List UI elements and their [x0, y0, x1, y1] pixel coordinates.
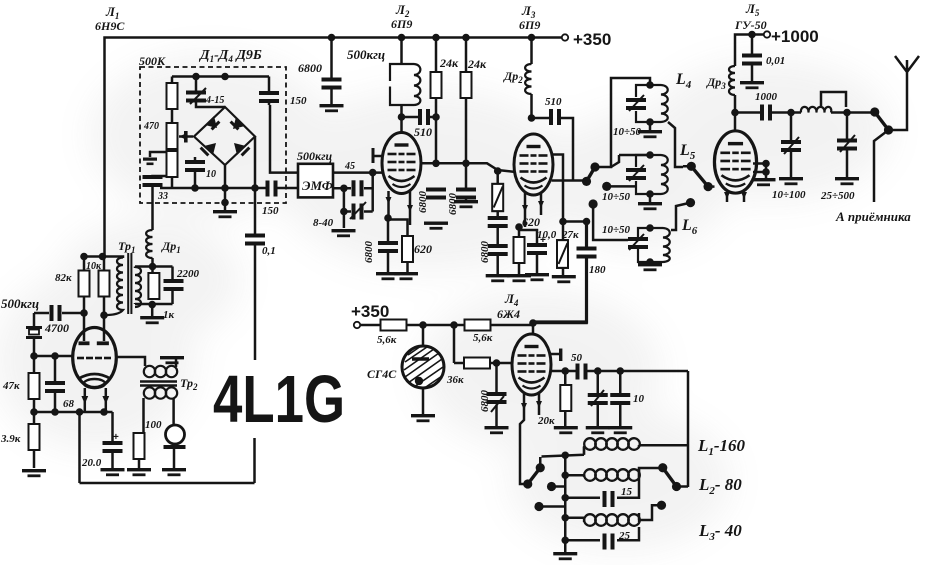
svg-text:6800: 6800: [298, 61, 322, 75]
svg-text:180: 180: [589, 264, 606, 276]
svg-text:10÷50: 10÷50: [613, 126, 642, 138]
svg-text:+350: +350: [351, 302, 389, 321]
svg-text:L2- 80: L2- 80: [698, 475, 742, 497]
svg-text:82к: 82к: [55, 272, 72, 284]
svg-text:0,1: 0,1: [262, 245, 276, 257]
svg-text:5,6к: 5,6к: [377, 334, 397, 346]
svg-text:10к: 10к: [86, 261, 102, 272]
svg-text:24к: 24к: [439, 56, 459, 70]
svg-text:1к: 1к: [163, 309, 175, 321]
svg-text:6800: 6800: [417, 191, 429, 214]
svg-text:10÷100: 10÷100: [772, 189, 806, 201]
svg-text:20к: 20к: [537, 415, 555, 427]
svg-text:3.9к: 3.9к: [0, 433, 21, 445]
svg-text:6П9: 6П9: [519, 18, 540, 32]
svg-text:4L1G: 4L1G: [213, 362, 345, 437]
svg-text:10: 10: [633, 393, 645, 405]
svg-text:+1000: +1000: [771, 27, 819, 46]
svg-text:33: 33: [157, 191, 168, 202]
svg-text:6800: 6800: [363, 241, 375, 264]
svg-text:6П9: 6П9: [391, 17, 412, 31]
svg-text:6Н9С: 6Н9С: [95, 19, 125, 33]
svg-text:10,0: 10,0: [537, 229, 557, 241]
svg-text:36к: 36к: [446, 374, 464, 386]
svg-text:ЭМФ: ЭМФ: [302, 178, 333, 193]
svg-text:6800: 6800: [479, 241, 491, 264]
svg-text:10÷50: 10÷50: [602, 224, 631, 236]
svg-text:510: 510: [414, 125, 432, 139]
svg-text:6800: 6800: [479, 390, 491, 413]
svg-text:А приёмника: А приёмника: [835, 209, 911, 224]
svg-text:5,6к: 5,6к: [473, 332, 493, 344]
svg-text:СГ4С: СГ4С: [367, 367, 397, 381]
svg-text:6800: 6800: [447, 193, 459, 216]
svg-text:24к: 24к: [467, 57, 487, 71]
svg-text:L3- 40: L3- 40: [698, 521, 742, 543]
svg-text:25: 25: [618, 530, 631, 542]
svg-text:4-15: 4-15: [205, 95, 224, 106]
svg-text:15: 15: [621, 486, 633, 498]
svg-text:27к: 27к: [561, 229, 579, 241]
svg-text:150: 150: [262, 205, 279, 217]
svg-text:4700: 4700: [44, 321, 69, 335]
svg-text:620: 620: [414, 242, 432, 256]
svg-text:6Ж4: 6Ж4: [497, 307, 520, 321]
svg-text:500К: 500К: [139, 54, 166, 68]
svg-text:45: 45: [344, 161, 355, 172]
svg-text:+: +: [113, 432, 119, 443]
svg-text:500кгц: 500кгц: [347, 47, 385, 62]
svg-text:+350: +350: [573, 30, 611, 49]
svg-text:100: 100: [145, 419, 162, 431]
svg-text:8-40: 8-40: [313, 217, 334, 229]
svg-text:1000: 1000: [755, 91, 778, 103]
svg-text:20.0: 20.0: [81, 457, 102, 469]
svg-text:150: 150: [290, 95, 307, 107]
svg-text:68: 68: [63, 398, 75, 410]
svg-text:500кгц: 500кгц: [1, 296, 39, 311]
svg-text:10: 10: [206, 169, 216, 180]
svg-text:25÷500: 25÷500: [820, 190, 855, 202]
svg-text:620: 620: [522, 215, 540, 229]
svg-text:50: 50: [571, 352, 583, 364]
svg-text:2200: 2200: [176, 268, 200, 280]
svg-text:47к: 47к: [2, 380, 20, 392]
svg-text:L1-160: L1-160: [697, 436, 746, 458]
svg-text:ГУ-50: ГУ-50: [734, 18, 767, 32]
svg-text:500кгц: 500кгц: [297, 149, 333, 163]
svg-text:0,01: 0,01: [766, 55, 785, 67]
svg-text:10÷50: 10÷50: [602, 191, 631, 203]
svg-text:510: 510: [545, 96, 562, 108]
svg-text:470: 470: [143, 121, 159, 132]
